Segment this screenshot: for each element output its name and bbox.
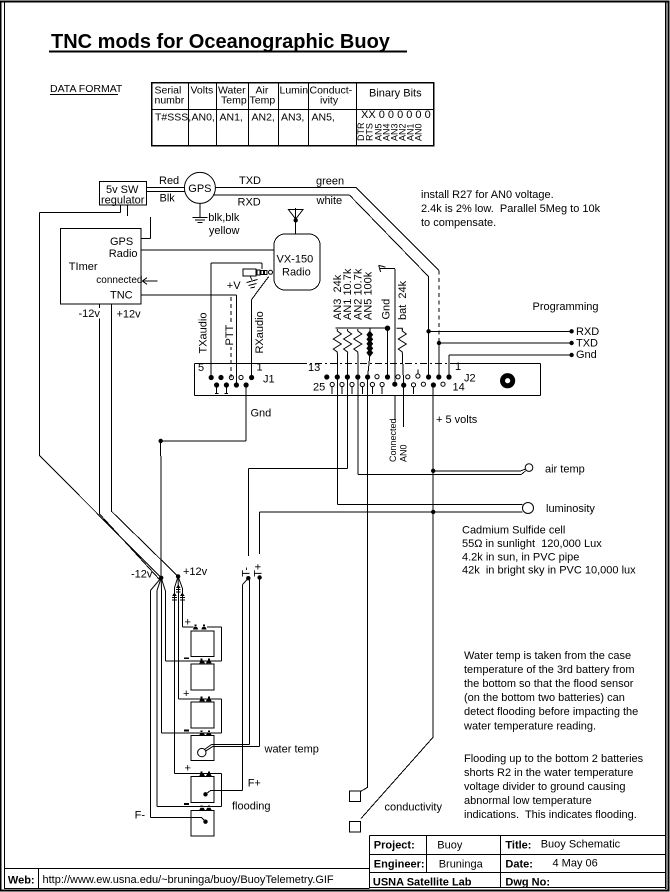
svg-text:1: 1 <box>257 362 263 374</box>
svg-text:+12v: +12v <box>117 309 142 321</box>
svg-text:numbr: numbr <box>155 95 185 107</box>
svg-text:conductivity: conductivity <box>385 802 443 814</box>
svg-text:4 May 06: 4 May 06 <box>553 858 598 870</box>
svg-text:RXD: RXD <box>576 326 599 338</box>
svg-text:Binary Bits: Binary Bits <box>369 88 422 100</box>
svg-text:ivity: ivity <box>320 95 339 107</box>
svg-text:Gnd: Gnd <box>251 408 272 420</box>
svg-text:Buoy Schematic: Buoy Schematic <box>541 839 621 851</box>
svg-text:indications. This indicates f: indications. This indicates flooding. <box>464 809 637 821</box>
svg-text:Radio: Radio <box>282 267 311 279</box>
svg-text:Gnd: Gnd <box>381 299 393 320</box>
svg-text:Bruninga: Bruninga <box>439 859 484 871</box>
svg-text:RXaudio: RXaudio <box>254 311 266 353</box>
svg-text:AN5 100k: AN5 100k <box>363 271 375 320</box>
svg-text:+: + <box>185 763 191 775</box>
svg-text:2.4k is 2% low. Parallel 5Meg: 2.4k is 2% low. Parallel 5Meg to 10k <box>421 203 601 215</box>
svg-text:VX-150: VX-150 <box>277 254 314 266</box>
svg-text:detect flooding before impacti: detect flooding before impacting the <box>464 706 638 718</box>
svg-text:AN1,: AN1, <box>220 112 243 124</box>
svg-text:42k in bright sky in PVC 10,0: 42k in bright sky in PVC 10,000 lux <box>462 565 636 577</box>
svg-text:Lumin: Lumin <box>280 85 309 97</box>
svg-text:GPS: GPS <box>110 236 133 248</box>
svg-text:5: 5 <box>198 362 204 374</box>
svg-text:Radio: Radio <box>109 248 138 260</box>
svg-text:AN5,: AN5, <box>312 112 335 124</box>
svg-text:green: green <box>316 176 344 188</box>
svg-text:T+: T+ <box>253 564 265 577</box>
svg-text:Temp: Temp <box>221 95 247 107</box>
svg-text:+: + <box>185 617 191 629</box>
svg-text:flooding: flooding <box>232 801 271 813</box>
svg-text:+: + <box>183 688 189 700</box>
svg-text:shorts R2 in the water tempera: shorts R2 in the water temperature <box>464 767 633 779</box>
svg-text:TXD: TXD <box>239 175 261 187</box>
svg-text:TNC mods for Oceanographic Buo: TNC mods for Oceanographic Buoy <box>51 31 391 53</box>
svg-text:T#SSS,: T#SSS, <box>155 112 191 124</box>
svg-text:Flooding up to the bottom 2 ba: Flooding up to the bottom 2 batteries <box>464 753 644 765</box>
svg-text:+V: +V <box>227 280 241 292</box>
svg-text:http://www.ew.usna.edu/~brunin: http://www.ew.usna.edu/~bruninga/buoy/Bu… <box>43 874 334 886</box>
svg-text:25: 25 <box>313 382 325 394</box>
svg-text:install R27 for AN0 voltage.: install R27 for AN0 voltage. <box>421 189 554 201</box>
svg-text:water temperature reading.: water temperature reading. <box>463 720 596 732</box>
svg-text:water temp: water temp <box>264 744 319 756</box>
svg-text:Red: Red <box>159 175 179 187</box>
svg-text:14: 14 <box>453 382 465 394</box>
svg-text:TImer: TImer <box>69 261 98 273</box>
svg-text:Engineer:: Engineer: <box>374 859 425 871</box>
svg-text:Water temp is taken from the c: Water temp is taken from the case <box>464 650 631 662</box>
svg-text:luminosity: luminosity <box>546 503 595 515</box>
svg-text:J2: J2 <box>464 373 476 385</box>
svg-text:55Ω in sunlight 120,000 Lux: 55Ω in sunlight 120,000 Lux <box>462 538 602 550</box>
svg-text:4.2k in sun, in PVC pipe: 4.2k in sun, in PVC pipe <box>462 551 579 563</box>
svg-text:+12v: +12v <box>183 566 208 578</box>
svg-text:USNA Satellite Lab: USNA Satellite Lab <box>373 877 472 889</box>
svg-text:PTT: PTT <box>224 324 236 345</box>
svg-text:Project:: Project: <box>374 840 415 852</box>
svg-text:-12v: -12v <box>79 308 101 320</box>
svg-text:GPS: GPS <box>188 183 211 195</box>
svg-text:Connected: Connected <box>388 418 398 462</box>
svg-text:RXD: RXD <box>238 197 261 209</box>
svg-text:TXaudio: TXaudio <box>198 313 210 354</box>
svg-text:Dwg No:: Dwg No: <box>505 877 550 889</box>
svg-text:-12v: -12v <box>131 569 153 581</box>
svg-text:regulator: regulator <box>101 195 145 207</box>
svg-text:Title:: Title: <box>505 840 531 852</box>
svg-text:F-: F- <box>135 810 146 822</box>
svg-text:AN2,: AN2, <box>252 112 275 124</box>
svg-text:blk,blk: blk,blk <box>208 212 240 224</box>
svg-text:temperature of the 3rd battery: temperature of the 3rd battery from <box>464 664 635 676</box>
svg-text:voltage divider to ground caus: voltage divider to ground causing <box>464 781 625 793</box>
svg-text:Web:: Web: <box>8 874 35 886</box>
svg-text:AN0: AN0 <box>414 123 424 141</box>
svg-text:AN0: AN0 <box>399 444 409 462</box>
svg-text:TXD: TXD <box>576 338 598 350</box>
svg-text:abnormal low temperature: abnormal low temperature <box>464 795 592 807</box>
svg-text:XX 0 0 0 0 0 0: XX 0 0 0 0 0 0 <box>361 109 431 121</box>
svg-text:AN3,: AN3, <box>281 112 304 124</box>
svg-text:to compensate.: to compensate. <box>421 217 496 229</box>
svg-text:Blk: Blk <box>160 193 176 205</box>
svg-text:13: 13 <box>308 362 320 374</box>
svg-text:J1: J1 <box>263 374 275 386</box>
svg-text:Date:: Date: <box>505 859 533 871</box>
svg-text:(on the bottom two batteries): (on the bottom two batteries) can <box>464 692 625 704</box>
svg-text:the bottom so that the flood s: the bottom so that the flood sensor <box>464 678 634 690</box>
svg-text:Programming: Programming <box>533 301 599 313</box>
svg-text:connected: connected <box>96 275 142 286</box>
svg-text:Temp: Temp <box>250 95 276 107</box>
svg-text:Gnd: Gnd <box>576 349 597 361</box>
svg-text:Volts: Volts <box>191 85 214 97</box>
svg-text:white: white <box>316 195 343 207</box>
svg-text:F+: F+ <box>248 778 261 790</box>
svg-text:bat 24k: bat 24k <box>397 280 409 320</box>
svg-text:yellow: yellow <box>209 225 240 237</box>
svg-text:+ 5 volts: + 5 volts <box>436 414 478 426</box>
svg-text:T-: T- <box>241 567 253 577</box>
svg-text:Cadmium Sulfide cell: Cadmium Sulfide cell <box>462 525 565 537</box>
svg-text:Buoy: Buoy <box>437 840 463 852</box>
svg-text:1: 1 <box>455 361 461 373</box>
svg-text:AN0,: AN0, <box>192 112 215 124</box>
svg-text:DATA FORMAT: DATA FORMAT <box>50 83 123 95</box>
svg-text:TNC: TNC <box>110 290 133 302</box>
svg-text:air temp: air temp <box>545 464 585 476</box>
